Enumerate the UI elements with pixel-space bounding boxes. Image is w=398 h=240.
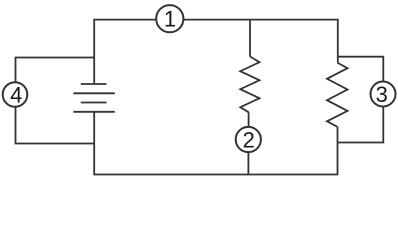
resistor middle bbox=[240, 57, 259, 113]
wire bottom bus from battery bottom to right branch bbox=[94, 112, 337, 175]
wire node4 bottom stub bbox=[16, 107, 95, 144]
wire top bus from battery top corner to right resistor corner bbox=[94, 20, 338, 83]
svg-text:1: 1 bbox=[164, 7, 176, 32]
battery B1 short plate (lower) bbox=[81, 102, 107, 104]
svg-text:4: 4 bbox=[10, 82, 22, 107]
wire node3 top stub bbox=[338, 57, 384, 82]
wire node3 bottom stub bbox=[338, 107, 384, 143]
node 2 bbox=[236, 127, 261, 152]
wire node4 top stub bbox=[16, 58, 95, 83]
resistor right bbox=[327, 63, 348, 127]
svg-text:3: 3 bbox=[376, 82, 388, 107]
node 1 bbox=[156, 5, 183, 32]
battery B1 long plate (bottom) bbox=[73, 111, 115, 113]
battery B1 short plate (top) bbox=[81, 83, 107, 85]
wire node 2 to bottom bus bbox=[247, 152, 249, 175]
node 4 bbox=[3, 82, 28, 107]
node 3 bbox=[371, 82, 396, 107]
svg-text:2: 2 bbox=[243, 127, 255, 152]
battery B1 long plate bbox=[73, 92, 115, 94]
wire middle branch to node 2 bbox=[248, 112, 250, 127]
wire middle branch top stub bbox=[249, 20, 251, 57]
